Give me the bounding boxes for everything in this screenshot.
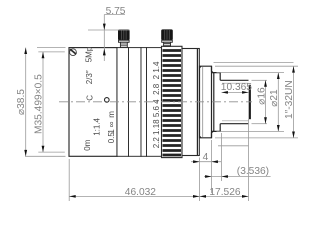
rear tube chamfer lines <box>222 83 249 121</box>
dim 4 <box>191 152 221 163</box>
svg-text:1:1.4: 1:1.4 <box>93 117 102 135</box>
bottom ext lines <box>69 119 248 201</box>
svg-text:5Mp: 5Mp <box>84 46 93 62</box>
svg-text:17.526: 17.526 <box>209 187 240 198</box>
svg-text:⌀38.5: ⌀38.5 <box>16 89 27 115</box>
svg-text:M35.499×0.5: M35.499×0.5 <box>33 74 44 134</box>
svg-text:1″-32UN: 1″-32UN <box>284 80 295 119</box>
dim (3.536) <box>204 166 271 178</box>
dim dia38.5 <box>16 48 66 157</box>
svg-text:2.2 1.18 5.6 4 2.8 2 1.4: 2.2 1.18 5.6 4 2.8 2 1.4 <box>152 61 161 148</box>
collar dia21 <box>212 73 221 132</box>
thumbscrew 1 <box>118 29 130 47</box>
1in-32UN thread section <box>200 66 212 138</box>
dim M35.499x0.5 <box>33 52 65 152</box>
svg-text:5.75: 5.75 <box>106 6 126 17</box>
svg-text:1: 1 <box>107 129 116 134</box>
dim 10.365 <box>221 82 252 94</box>
svg-text:2/3″: 2/3″ <box>85 70 94 84</box>
aperture ring front <box>147 48 162 157</box>
svg-text:m: m <box>107 111 116 118</box>
svg-text:C: C <box>85 95 94 101</box>
dim 17.526 <box>200 187 249 198</box>
ring B <box>129 48 142 157</box>
front barrel ring (ø38.5) <box>69 48 117 157</box>
dim dia21 <box>269 73 280 132</box>
svg-text:⌀21: ⌀21 <box>269 89 280 107</box>
rear face (glass) <box>249 85 251 119</box>
dim dia16 <box>256 80 267 123</box>
svg-text:4: 4 <box>203 152 209 163</box>
ring C <box>141 48 147 157</box>
svg-text:0m: 0m <box>83 139 92 150</box>
thread relief line <box>202 67 204 137</box>
right ext lines <box>214 63 299 146</box>
dim 46.032 <box>69 187 199 198</box>
ring A (focus ring) <box>117 48 129 157</box>
centerline <box>59 101 252 103</box>
smooth rear ring <box>182 49 199 156</box>
svg-text:46.032: 46.032 <box>125 187 156 198</box>
svg-text:∞: ∞ <box>107 121 116 127</box>
svg-text:(3.536): (3.536) <box>237 166 269 177</box>
flange face inner line <box>196 49 198 155</box>
knurled grip ring <box>162 46 183 157</box>
corner set screw detail <box>70 49 77 56</box>
svg-text:⌀16: ⌀16 <box>256 87 267 105</box>
svg-text:10.365: 10.365 <box>221 82 252 93</box>
dim 1in-32UN <box>284 66 295 138</box>
thumbscrew 2 <box>161 29 173 46</box>
chamfer step after thread <box>212 66 214 138</box>
dim 5.75 <box>88 6 130 61</box>
rear tube dia16 <box>220 80 248 123</box>
side screw circle <box>105 98 110 103</box>
